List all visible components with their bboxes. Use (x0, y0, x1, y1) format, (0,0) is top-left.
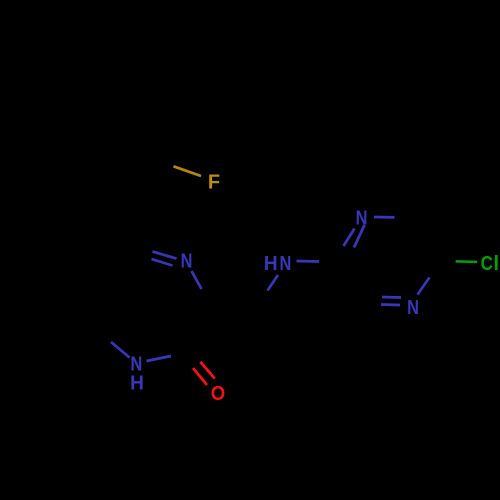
svg-text:N: N (181, 249, 193, 272)
bond N4-C3 half (192, 271, 202, 289)
bond N1'-C6' half (right) (374, 216, 395, 219)
bond C2=O double, lower half line (193, 368, 207, 385)
bond N(amine)-C2' half (right) (297, 260, 320, 263)
bond N(amine)-CH2 half (down-left) (268, 275, 279, 291)
bond N1'=C2' double inner half line (344, 229, 355, 247)
svg-text:C: C (481, 252, 493, 275)
svg-text:N: N (407, 295, 419, 318)
bond C(aryl)-F gold half (174, 166, 202, 176)
bond C2=O double, upper half line (200, 362, 215, 379)
bond N4'-C5' half (up-right) (418, 278, 430, 295)
bond N1'=C2' double outer half line (354, 225, 365, 248)
bond N4'=C3' double upper half line (382, 296, 401, 299)
svg-text:l: l (494, 253, 500, 275)
bond N4'=C3' double lower half line (381, 303, 400, 306)
svg-text:H: H (264, 253, 278, 276)
svg-text:F: F (208, 171, 220, 193)
bond C5=N4 imine double, upper half line (153, 252, 177, 259)
bond C5=N4 imine double, lower half line (152, 259, 173, 266)
svg-text:N: N (279, 251, 291, 274)
svg-text:N: N (356, 206, 368, 229)
bond C5'-Cl green half (456, 260, 478, 263)
bond N1-C9a half (up-left) (111, 342, 130, 358)
svg-text:O: O (211, 383, 225, 405)
svg-text:H: H (130, 372, 144, 395)
bond N1-C2 half (right) (147, 356, 172, 361)
